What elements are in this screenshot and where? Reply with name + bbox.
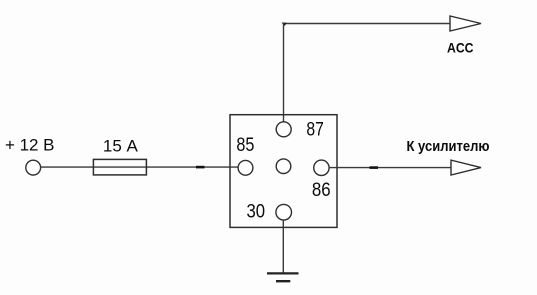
- relay center pin circle: [276, 159, 291, 174]
- node: corner junction dot: [282, 23, 288, 27]
- relay body K1: [230, 115, 337, 228]
- svg-text:ACC: ACC: [447, 40, 474, 56]
- svg-text:+ 12 В: + 12 В: [5, 137, 55, 155]
- pin 85 circle: [238, 160, 253, 175]
- svg-text:15 А: 15 А: [103, 137, 139, 156]
- pin 30 circle: [276, 204, 292, 220]
- wire: pin 86 to amplifier arrow: [329, 167, 451, 169]
- wire: top horizontal to ACC arrow: [283, 23, 451, 25]
- pin 87 circle: [276, 122, 291, 137]
- pin 86 circle: [314, 160, 329, 175]
- svg-text:30: 30: [247, 201, 266, 222]
- wire: terminal to relay pin 85 (through fuse): [41, 166, 239, 168]
- wire: vertical from corner down to pin 87: [283, 23, 285, 122]
- fuse F1: [93, 159, 146, 175]
- ground: bottom bar: [276, 280, 290, 282]
- wire: pin 30 down to ground: [282, 220, 284, 273]
- svg-text:85: 85: [236, 135, 254, 156]
- junction mark on wire: [196, 166, 205, 169]
- arrow: ACC output: [450, 16, 481, 31]
- terminal: +12V circle: [26, 160, 41, 175]
- svg-text:86: 86: [312, 180, 331, 201]
- arrow: to amplifier: [451, 160, 481, 175]
- ground: top bar: [267, 272, 299, 274]
- junction mark on right wire: [370, 166, 379, 169]
- svg-text:К усилителю: К усилителю: [407, 138, 490, 155]
- svg-text:87: 87: [306, 119, 324, 140]
